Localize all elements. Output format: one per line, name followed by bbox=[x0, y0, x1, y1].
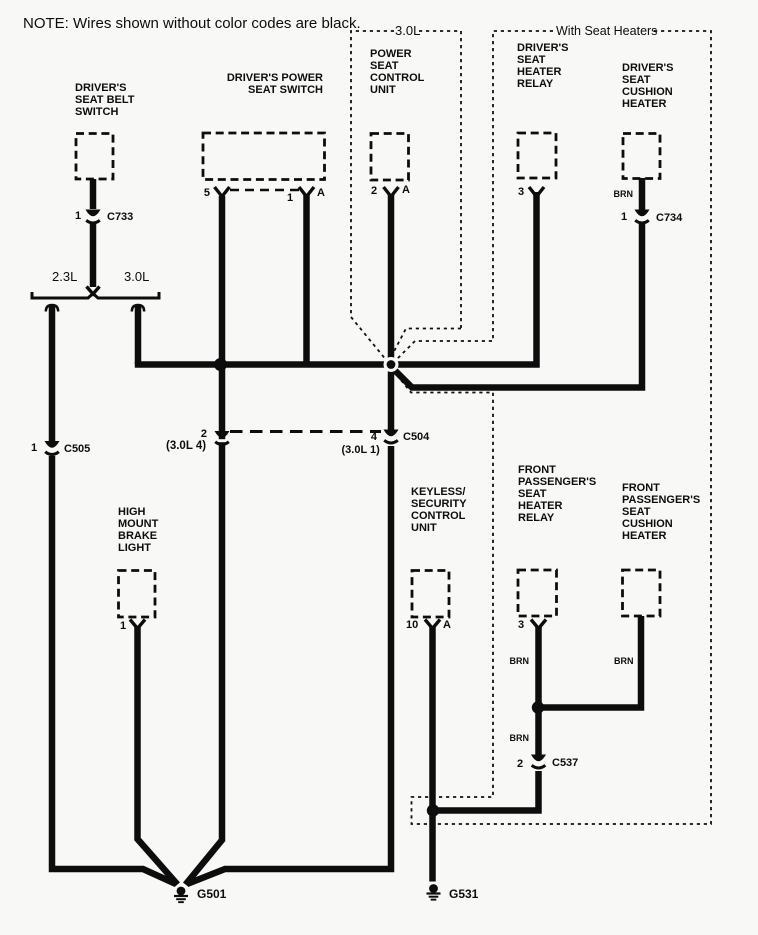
svg-text:C504: C504 bbox=[403, 431, 430, 443]
svg-text:MOUNT: MOUNT bbox=[118, 518, 159, 530]
svg-text:3.0L: 3.0L bbox=[395, 23, 420, 38]
svg-text:HEATER: HEATER bbox=[518, 500, 562, 512]
svg-text:DRIVER'S: DRIVER'S bbox=[75, 82, 127, 94]
svg-text:3.0L: 3.0L bbox=[124, 269, 149, 284]
svg-text:RELAY: RELAY bbox=[518, 512, 555, 524]
svg-text:KEYLESS/: KEYLESS/ bbox=[411, 486, 465, 498]
svg-text:1: 1 bbox=[621, 211, 627, 223]
svg-text:BRN: BRN bbox=[510, 656, 530, 666]
svg-text:PASSENGER'S: PASSENGER'S bbox=[518, 476, 596, 488]
svg-text:(3.0L 4): (3.0L 4) bbox=[166, 440, 206, 452]
svg-text:A: A bbox=[402, 184, 410, 196]
svg-text:1: 1 bbox=[75, 210, 81, 222]
svg-text:FRONT: FRONT bbox=[518, 464, 556, 476]
svg-text:HIGH: HIGH bbox=[118, 506, 146, 518]
svg-text:(3.0L 1): (3.0L 1) bbox=[342, 444, 381, 456]
svg-text:BRAKE: BRAKE bbox=[118, 530, 157, 542]
svg-text:BRN: BRN bbox=[510, 733, 530, 743]
svg-text:10: 10 bbox=[406, 619, 418, 631]
svg-text:SEAT: SEAT bbox=[518, 488, 547, 500]
svg-text:LIGHT: LIGHT bbox=[118, 542, 151, 554]
svg-text:PASSENGER'S: PASSENGER'S bbox=[622, 494, 700, 506]
svg-text:CUSHION: CUSHION bbox=[622, 86, 673, 98]
svg-text:With Seat Heaters: With Seat Heaters bbox=[556, 24, 657, 38]
svg-text:A: A bbox=[443, 619, 451, 631]
svg-text:SEAT: SEAT bbox=[370, 60, 399, 72]
svg-text:1: 1 bbox=[31, 442, 37, 454]
svg-text:SEAT: SEAT bbox=[622, 74, 651, 86]
svg-text:1: 1 bbox=[120, 620, 126, 632]
svg-text:G501: G501 bbox=[197, 887, 227, 901]
svg-text:SECURITY: SECURITY bbox=[411, 498, 467, 510]
svg-text:NOTE: Wires shown without colo: NOTE: Wires shown without color codes ar… bbox=[23, 15, 361, 32]
svg-text:SEAT SWITCH: SEAT SWITCH bbox=[248, 84, 323, 96]
svg-text:SEAT: SEAT bbox=[517, 54, 546, 66]
svg-text:DRIVER'S POWER: DRIVER'S POWER bbox=[227, 72, 323, 84]
svg-text:3: 3 bbox=[518, 186, 524, 198]
svg-text:4: 4 bbox=[371, 431, 378, 443]
svg-text:SEAT BELT: SEAT BELT bbox=[75, 94, 135, 106]
svg-text:HEATER: HEATER bbox=[517, 66, 561, 78]
svg-text:2: 2 bbox=[201, 428, 207, 440]
svg-text:FRONT: FRONT bbox=[622, 482, 660, 494]
svg-text:2: 2 bbox=[517, 758, 523, 770]
svg-text:2.3L: 2.3L bbox=[52, 269, 77, 284]
svg-text:5: 5 bbox=[204, 187, 210, 199]
svg-text:UNIT: UNIT bbox=[370, 84, 396, 96]
svg-text:A: A bbox=[317, 187, 325, 199]
svg-text:POWER: POWER bbox=[370, 48, 412, 60]
svg-text:UNIT: UNIT bbox=[411, 522, 437, 534]
svg-text:CONTROL: CONTROL bbox=[370, 72, 425, 84]
svg-text:BRN: BRN bbox=[614, 656, 634, 666]
svg-text:BRN: BRN bbox=[614, 189, 634, 199]
svg-text:C733: C733 bbox=[107, 211, 133, 223]
svg-text:CONTROL: CONTROL bbox=[411, 510, 466, 522]
svg-text:2: 2 bbox=[371, 185, 377, 197]
svg-text:SEAT: SEAT bbox=[622, 506, 651, 518]
svg-text:3: 3 bbox=[518, 619, 524, 631]
svg-text:SWITCH: SWITCH bbox=[75, 106, 118, 118]
svg-text:C734: C734 bbox=[656, 212, 683, 224]
svg-text:RELAY: RELAY bbox=[517, 78, 554, 90]
svg-text:C505: C505 bbox=[64, 443, 90, 455]
svg-text:DRIVER'S: DRIVER'S bbox=[517, 42, 569, 54]
svg-text:1: 1 bbox=[287, 192, 293, 204]
svg-text:DRIVER'S: DRIVER'S bbox=[622, 62, 674, 74]
svg-text:G531: G531 bbox=[449, 887, 479, 901]
svg-text:HEATER: HEATER bbox=[622, 98, 666, 110]
svg-text:C537: C537 bbox=[552, 757, 578, 769]
svg-text:CUSHION: CUSHION bbox=[622, 518, 673, 530]
svg-text:HEATER: HEATER bbox=[622, 530, 666, 542]
